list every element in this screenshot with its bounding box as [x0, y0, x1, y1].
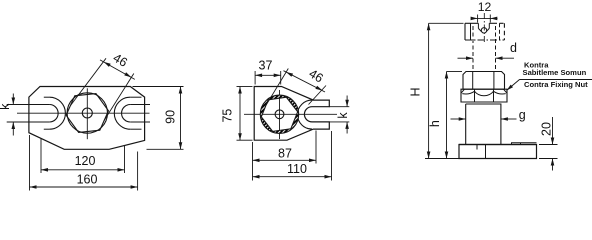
svg-text:H: H	[408, 87, 422, 96]
view 1: hex boss circle	[67, 93, 107, 133]
dimension 20 (view 3)	[539, 144, 558, 146]
dimension k (view 2)	[329, 106, 349, 108]
view 1: hexagon	[66, 94, 108, 133]
view 3: adjusting nut block	[465, 22, 478, 24]
svg-text:87: 87	[278, 146, 292, 160]
svg-text:120: 120	[75, 154, 96, 168]
dimension 110 (view 2)	[331, 131, 333, 181]
dimension 37 (view 2)	[254, 71, 256, 85]
view 2: vertical centerline	[279, 90, 281, 139]
svg-text:90: 90	[163, 110, 177, 124]
contra fixing nut (view 3)	[461, 89, 507, 102]
view 3: base bottom extension line	[425, 158, 459, 160]
view 3: block slot	[477, 23, 479, 28]
view 2: plate outline	[254, 87, 329, 141]
view 3: spindle housing	[466, 104, 501, 145]
view 3: threaded spindle (hidden)	[472, 26, 474, 72]
view 1: center hole	[82, 108, 92, 118]
dimension 46 (view 1)	[71, 58, 107, 105]
svg-text:110: 110	[287, 162, 307, 176]
svg-text:d: d	[510, 41, 517, 55]
label leader: contra fixing nut	[507, 80, 520, 91]
view 3: vertical centerline	[483, 13, 485, 44]
svg-text:Contra Fixing Nut: Contra Fixing Nut	[524, 80, 588, 89]
view 1: left slot boss arc	[49, 97, 65, 129]
view 1: right slot	[130, 104, 150, 106]
svg-text:Sabitleme Somun: Sabitleme Somun	[523, 68, 587, 77]
view 2: center hole	[275, 110, 284, 119]
view 3: hex body	[463, 72, 505, 90]
dimension d (view 3)	[458, 57, 474, 59]
svg-text:12: 12	[478, 0, 492, 14]
svg-text:20: 20	[539, 122, 553, 136]
dimension 120 (view 1)	[40, 139, 42, 174]
view 2: horizontal centerline	[244, 113, 337, 115]
svg-text:k: k	[0, 103, 12, 110]
dimension 87 (view 2)	[252, 142, 254, 181]
svg-text:h: h	[428, 120, 442, 127]
dimension 160 (view 1)	[29, 135, 31, 191]
view 2: slot boss arc	[298, 100, 313, 129]
dimension h (view 3)	[447, 71, 463, 73]
view 3: base plate side view	[459, 145, 537, 159]
dimension 90 (view 1)	[133, 86, 184, 88]
svg-text:k: k	[336, 112, 350, 119]
svg-text:g: g	[519, 108, 526, 122]
view 3: block inner edges	[470, 23, 472, 40]
dimension H (view 3)	[429, 22, 464, 24]
view 2: hex with hatched segments	[260, 95, 298, 133]
dimension 46 (view 2)	[266, 69, 288, 106]
svg-text:37: 37	[259, 58, 273, 72]
dimension 75 (view 2)	[237, 86, 253, 88]
view 1: left slot	[7, 104, 50, 106]
view 3: slot boss on base	[512, 143, 537, 145]
view 1: right slot boss arc	[114, 97, 130, 129]
dimension g (view 3)	[451, 118, 466, 120]
svg-text:160: 160	[77, 173, 98, 187]
view 1: horizontal centerline	[17, 112, 150, 114]
svg-text:75: 75	[221, 109, 235, 123]
view 1: base plate top view, outline	[29, 87, 145, 150]
view 1: vertical centerline	[86, 88, 88, 139]
